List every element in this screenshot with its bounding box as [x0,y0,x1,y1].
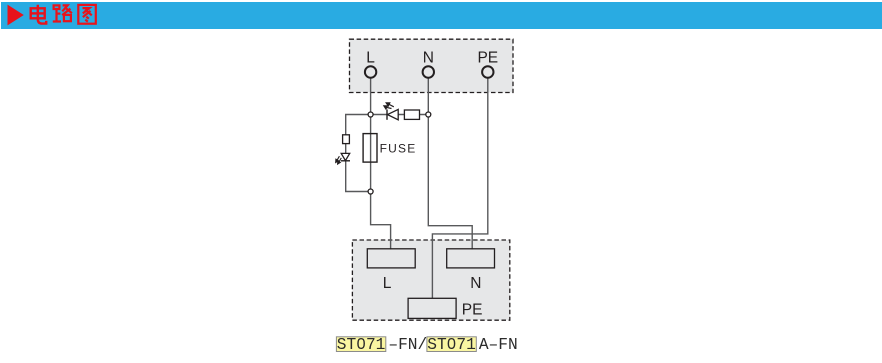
svg-text:N: N [470,275,481,292]
svg-text:PE: PE [477,49,498,66]
svg-text:PE: PE [462,301,483,318]
svg-text:ST071–FN/ST071A–FN: ST071–FN/ST071A–FN [337,336,518,354]
svg-text:L: L [383,275,392,292]
svg-text:N: N [423,49,434,66]
svg-text:L: L [366,49,375,66]
svg-text:FUSE: FUSE [380,141,417,155]
